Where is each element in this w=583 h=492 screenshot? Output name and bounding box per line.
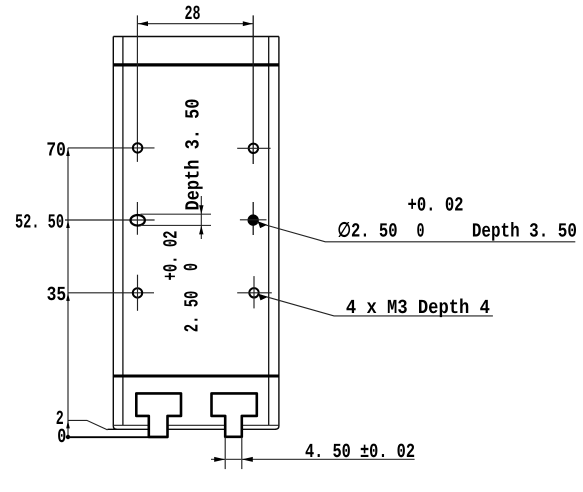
tick 70 <box>66 148 70 156</box>
ext line left column <box>136 15 138 234</box>
dim 28 arrow left <box>138 21 148 26</box>
stem ext line left <box>224 437 226 469</box>
hole A1 (70 left) <box>133 143 142 152</box>
leader 2 <box>68 420 108 430</box>
svg-text:70: 70 <box>46 140 66 163</box>
slot dim arrow top <box>199 205 203 214</box>
ordinate baseline <box>67 148 69 437</box>
stem ext line right <box>241 437 243 469</box>
filled hole B2 <box>248 215 258 225</box>
svg-text:4 x M3 Depth 4: 4 x M3 Depth 4 <box>346 297 490 320</box>
dim 4.50 arrow right <box>242 457 253 462</box>
dim 28 arrow right <box>243 21 253 26</box>
leader to m3 note <box>259 295 493 316</box>
svg-text:52. 50: 52. 50 <box>15 211 64 234</box>
svg-text:28: 28 <box>185 3 201 26</box>
body inner wall right <box>268 37 270 426</box>
svg-text:2. 50: 2. 50 <box>182 291 205 333</box>
slot dim vline <box>200 196 202 239</box>
filled hole crosshair h <box>240 219 267 221</box>
svg-text:0: 0 <box>181 263 204 271</box>
left T foot <box>136 393 181 437</box>
svg-text:+0. 02: +0. 02 <box>161 231 184 281</box>
leader to phi note <box>257 223 575 242</box>
svg-text:0: 0 <box>57 426 66 449</box>
hole C2 crosshair v <box>253 276 255 308</box>
hole C2 (35 right) <box>249 288 258 297</box>
body outer outline <box>113 37 279 430</box>
hole A2 crosshair h <box>237 147 270 149</box>
svg-text:35: 35 <box>47 284 67 307</box>
slot hole <box>131 215 145 226</box>
slot ext line top <box>141 213 212 215</box>
right T foot <box>212 393 257 436</box>
tick 52.50 <box>66 220 70 228</box>
tick 35 <box>66 293 70 301</box>
leader arrow m3 <box>258 294 268 301</box>
body outer bottom line <box>108 428 277 430</box>
svg-text:0: 0 <box>417 221 425 244</box>
body inner bottom line <box>113 424 279 426</box>
svg-text:Depth 3. 50: Depth 3. 50 <box>472 220 577 243</box>
tick 2 <box>66 420 70 428</box>
leader 35 <box>68 292 154 294</box>
leader 52.50 <box>65 219 155 221</box>
ext line right column <box>252 15 254 235</box>
hole A2 (70 right) <box>249 144 258 153</box>
hole C1 crosshair v <box>137 275 139 311</box>
slot ext line bottom <box>141 224 212 226</box>
dim 28 line <box>138 23 253 25</box>
thick section line bottom <box>113 375 279 378</box>
body inner wall left <box>122 37 124 426</box>
leader 70 <box>68 147 155 149</box>
svg-text:4. 50 ±0. 02: 4. 50 ±0. 02 <box>305 441 415 464</box>
svg-text:Depth 3. 50: Depth 3. 50 <box>183 99 206 211</box>
slot dim arrow bottom <box>199 225 203 234</box>
hole C2 crosshair h <box>237 292 272 294</box>
leader arrow <box>258 221 268 228</box>
zero baseline <box>68 436 168 438</box>
hole C1 (35 left) <box>133 288 142 297</box>
dim 4.50 line <box>211 458 415 460</box>
zero dot <box>66 435 70 439</box>
dim 4.50 arrow left <box>214 457 225 462</box>
thick section line top <box>113 63 279 66</box>
svg-text:∅2. 50: ∅2. 50 <box>338 221 398 244</box>
svg-text:+0. 02: +0. 02 <box>408 194 464 217</box>
